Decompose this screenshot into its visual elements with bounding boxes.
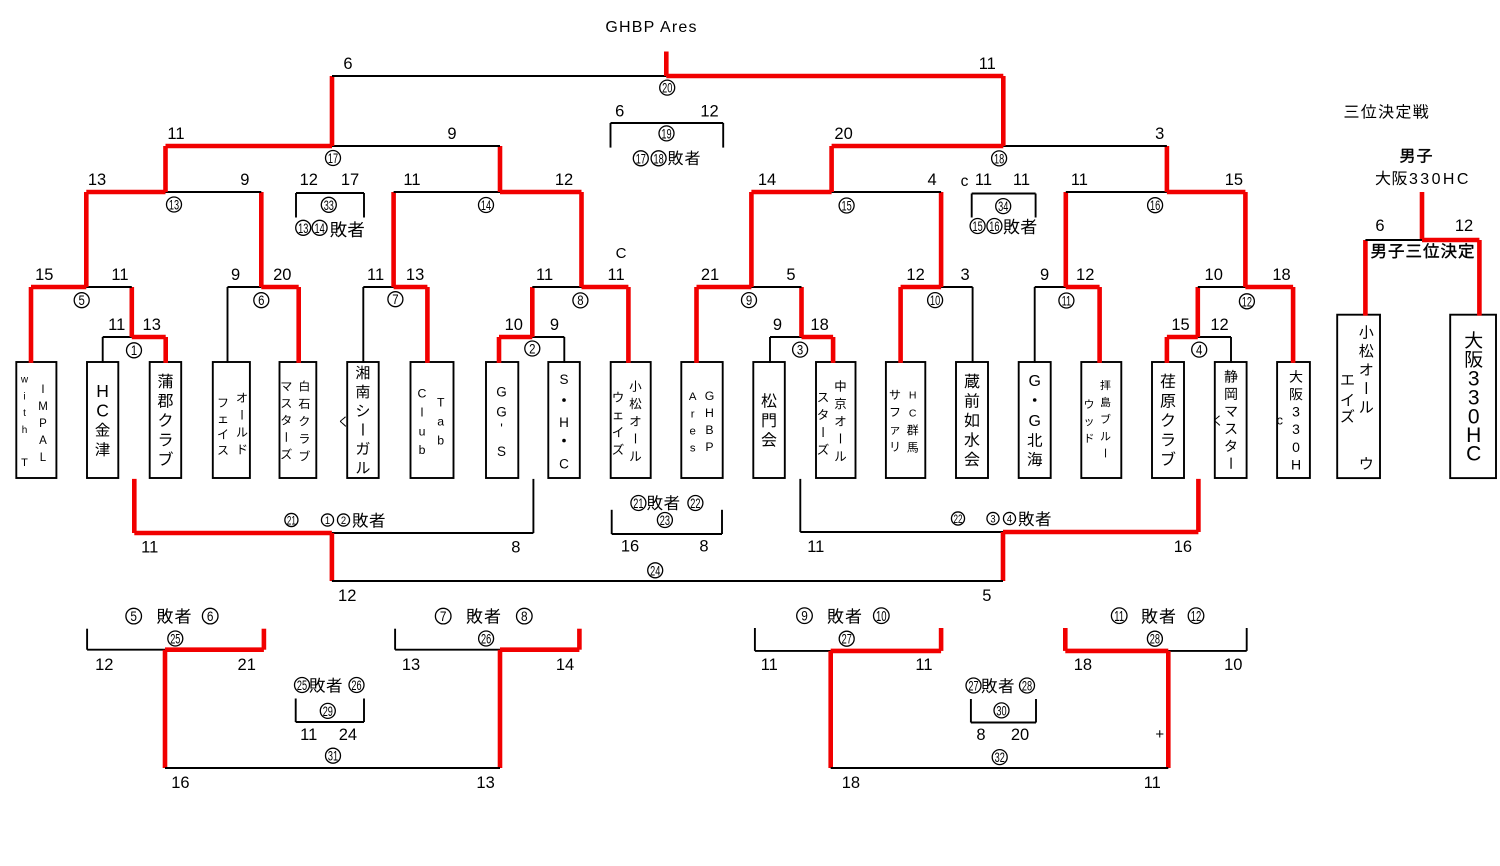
svg-text:9: 9	[231, 266, 240, 284]
svg-text:13: 13	[476, 774, 494, 792]
svg-text:H: H	[96, 381, 109, 401]
match 20 scores	[343, 55, 995, 73]
svg-text:T: T	[21, 457, 28, 469]
match 32 bracket	[831, 767, 1169, 769]
svg-text:6: 6	[1375, 217, 1384, 235]
svg-text:11: 11	[1062, 294, 1072, 309]
svg-text:11: 11	[167, 125, 184, 143]
svg-text:16: 16	[171, 774, 189, 792]
svg-text:22: 22	[690, 496, 700, 511]
match 33 number	[321, 197, 336, 212]
team box 小松オールウェイズ	[611, 362, 651, 478]
svg-text:r: r	[691, 408, 695, 420]
team box 松門会	[753, 362, 785, 478]
svg-text:16: 16	[1174, 538, 1192, 556]
svg-text:11: 11	[975, 171, 992, 189]
svg-text:17: 17	[328, 151, 338, 166]
svg-text:33: 33	[324, 198, 335, 213]
match 13 number	[167, 197, 182, 212]
svg-text:9: 9	[550, 316, 559, 334]
svg-text:16: 16	[1150, 198, 1161, 213]
label 15 16 敗者	[970, 219, 1036, 235]
svg-text:12: 12	[700, 103, 718, 121]
svg-text:9: 9	[801, 608, 808, 624]
wire match22-match24	[1001, 532, 1006, 581]
match 8 number	[573, 293, 588, 308]
annotation く near 静岡	[1214, 415, 1220, 425]
wire match18-match20	[1001, 76, 1006, 146]
svg-text:10: 10	[876, 608, 887, 625]
match 17 bracket	[166, 144, 501, 149]
svg-text:14: 14	[481, 198, 492, 213]
label 11 敗者 12	[1111, 608, 1203, 625]
match 29 bracket	[296, 699, 364, 723]
label 男子三位決定	[1371, 244, 1385, 258]
svg-text:L: L	[40, 452, 47, 464]
team box HC群馬サファリ	[886, 362, 925, 478]
svg-text:13: 13	[143, 316, 161, 334]
svg-text:5: 5	[786, 266, 795, 284]
svg-text:11: 11	[915, 656, 932, 674]
svg-text:3: 3	[961, 266, 970, 284]
match 2 scores	[505, 316, 559, 334]
svg-text:i: i	[23, 391, 25, 402]
match 16 scores	[1071, 171, 1243, 189]
team box IMPAL with T	[16, 362, 56, 478]
match 1 scores	[108, 316, 161, 334]
wire match2-match8	[530, 287, 535, 337]
svg-text:26: 26	[481, 632, 492, 647]
svg-text:11: 11	[111, 266, 128, 284]
svg-text:17: 17	[636, 151, 646, 166]
svg-text:s: s	[690, 443, 696, 455]
svg-text:13: 13	[88, 171, 106, 189]
wire feeder 白石	[296, 287, 301, 363]
svg-text:11: 11	[403, 171, 420, 189]
match 7 number	[388, 292, 403, 307]
svg-text:l: l	[421, 406, 424, 420]
svg-text:C: C	[1466, 443, 1481, 466]
svg-text:6: 6	[343, 55, 352, 73]
svg-text:A: A	[39, 435, 47, 447]
wire match11-match16	[1064, 192, 1069, 287]
svg-text:28: 28	[1150, 632, 1161, 647]
team box 大阪330HC(3位)	[1450, 315, 1496, 478]
match 3 bracket	[770, 336, 833, 338]
svg-text:9: 9	[240, 171, 249, 189]
match 18 scores	[834, 125, 1164, 143]
match 1 bracket	[103, 336, 166, 338]
label 25敗者26	[295, 678, 365, 694]
svg-text:330HC: 330HC	[1409, 171, 1471, 188]
wire match12-match16	[1243, 192, 1248, 287]
svg-text:0: 0	[1292, 439, 1300, 455]
svg-text:12: 12	[1242, 294, 1252, 309]
wire match3-match9	[799, 287, 804, 337]
svg-text:3: 3	[797, 343, 803, 358]
svg-text:12: 12	[906, 266, 924, 284]
svg-text:21: 21	[238, 656, 256, 674]
team box GHBP Ares	[681, 362, 722, 478]
team box オールドフェイス	[213, 362, 250, 478]
svg-text:24: 24	[650, 563, 661, 578]
svg-text:11: 11	[608, 266, 625, 284]
wire feeder 小松(3位)	[1363, 240, 1368, 316]
svg-text:C: C	[96, 401, 109, 421]
match 13 scores	[88, 171, 250, 189]
match 16 bracket	[1066, 191, 1246, 193]
match 20 bracket (final)	[332, 75, 1003, 77]
match 28 scores	[1074, 656, 1243, 674]
svg-text:4: 4	[1196, 343, 1202, 358]
svg-text:11: 11	[367, 266, 384, 284]
match 8 scores	[536, 266, 625, 284]
match 3rd place bracket	[1365, 239, 1479, 241]
svg-text:c: c	[1277, 413, 1284, 428]
wire match13-match17	[163, 146, 168, 192]
svg-text:9: 9	[447, 125, 456, 143]
svg-text:5: 5	[982, 587, 991, 605]
wire feeder 松門会	[769, 337, 771, 363]
svg-text:18: 18	[994, 152, 1005, 167]
wire feeder 湘南	[362, 287, 364, 363]
match 5 number	[74, 293, 89, 308]
label 13 14 敗者	[296, 220, 364, 237]
match 23 scores	[621, 538, 709, 556]
match 25 scores	[95, 656, 256, 674]
wire match7-match14	[391, 192, 396, 287]
svg-text:18: 18	[810, 316, 828, 334]
match 25 number	[168, 631, 183, 646]
svg-text:5: 5	[130, 608, 137, 624]
wire match26-match31	[498, 650, 503, 768]
svg-text:11: 11	[536, 266, 553, 284]
svg-text:H: H	[909, 390, 917, 402]
svg-text:G: G	[705, 389, 715, 403]
svg-text:+: +	[1155, 726, 1164, 743]
match 2 number	[525, 341, 540, 356]
svg-text:b: b	[419, 443, 426, 457]
match 10 scores	[906, 266, 969, 284]
svg-text:17: 17	[341, 171, 359, 189]
svg-text:GHBP Ares: GHBP Ares	[605, 19, 697, 36]
match 29 scores	[300, 726, 357, 744]
svg-text:T: T	[437, 395, 445, 409]
svg-text:12: 12	[1076, 266, 1094, 284]
svg-text:34: 34	[998, 199, 1009, 214]
svg-text:5: 5	[79, 293, 85, 308]
svg-text:A: A	[689, 391, 697, 403]
svg-text:14: 14	[556, 656, 574, 674]
svg-text:P: P	[39, 418, 47, 430]
svg-text:20: 20	[273, 266, 291, 284]
team box 荏原クラブ	[1152, 362, 1184, 478]
match 26 number	[479, 631, 494, 646]
svg-text:12: 12	[555, 171, 573, 189]
svg-text:20: 20	[834, 125, 852, 143]
svg-text:19: 19	[661, 127, 671, 142]
team box 蒲郡クラブ	[150, 362, 182, 478]
match 34 number	[996, 199, 1011, 214]
match 22 bracket	[800, 479, 1198, 532]
team box 中京オールスターズ	[816, 362, 856, 478]
match 24 number	[648, 563, 663, 578]
svg-text:a: a	[437, 414, 444, 428]
team box 白石クラブマスターズ	[280, 362, 317, 478]
match 23 number	[657, 513, 672, 528]
svg-text:23: 23	[660, 513, 671, 528]
match 26 scores	[402, 656, 574, 674]
svg-text:21: 21	[287, 515, 296, 528]
match 19 bracket	[611, 123, 724, 148]
svg-text:10: 10	[930, 293, 941, 308]
team box 静岡マスター	[1215, 362, 1247, 478]
wire match9-match15	[749, 192, 754, 287]
match 8 bracket	[532, 286, 628, 288]
team box 湘南シーガル	[347, 362, 379, 478]
svg-text:3: 3	[1292, 404, 1300, 420]
match 31 bracket	[165, 767, 500, 769]
match 19 scores	[615, 103, 719, 121]
match 10 bracket	[901, 285, 973, 290]
wire feeder GG北海	[1034, 287, 1036, 363]
svg-text:2: 2	[529, 341, 535, 356]
team box 小松オールウェイズ(3位)	[1337, 315, 1380, 478]
wire feeder 拝島	[1097, 287, 1102, 363]
match 18 number	[992, 151, 1007, 166]
match 27 bracket	[755, 628, 941, 651]
svg-text:u: u	[419, 424, 426, 438]
match 9 scores	[701, 266, 796, 284]
match 20 number	[660, 80, 675, 95]
svg-text:H: H	[559, 415, 569, 430]
match 31 scores	[171, 774, 495, 792]
wire match21-match24	[330, 533, 335, 581]
svg-text:9: 9	[1040, 266, 1049, 284]
svg-text:e: e	[690, 426, 696, 438]
match 32 scores	[842, 774, 1161, 792]
match 28 bracket	[1065, 628, 1246, 651]
match 15 number	[839, 198, 854, 213]
svg-text:8: 8	[521, 608, 528, 624]
match 17 scores	[167, 125, 456, 143]
wire feeder GGS	[497, 337, 502, 363]
label 9 敗者 10	[797, 608, 889, 625]
svg-text:7: 7	[440, 608, 447, 624]
match 16 number	[1148, 198, 1163, 213]
match 4 bracket	[1167, 335, 1231, 340]
svg-text:3: 3	[1155, 125, 1164, 143]
svg-text:G: G	[496, 405, 507, 420]
team box S・H・C	[548, 362, 580, 478]
wire champion	[664, 52, 669, 77]
svg-text:2: 2	[341, 515, 346, 527]
wire feeder 蒲郡	[163, 337, 168, 363]
svg-text:12: 12	[1455, 217, 1473, 235]
svg-text:11: 11	[141, 539, 158, 557]
match 27 scores	[761, 656, 933, 674]
svg-text:8: 8	[577, 293, 583, 308]
svg-text:12: 12	[300, 171, 318, 189]
match 22 scores	[807, 538, 1192, 556]
svg-text:7: 7	[392, 292, 398, 307]
svg-text:20: 20	[1011, 726, 1029, 744]
svg-text:11: 11	[300, 726, 317, 744]
match 10 number	[928, 293, 943, 308]
svg-text:12: 12	[338, 587, 356, 605]
svg-text:4: 4	[928, 171, 937, 189]
wire feeder オールド	[227, 287, 229, 363]
svg-text:27: 27	[968, 679, 978, 694]
match 6 bracket	[228, 286, 299, 288]
svg-text:18: 18	[1074, 656, 1092, 674]
svg-text:18: 18	[653, 151, 664, 166]
match 3rd place scores	[1375, 217, 1473, 235]
match 6 scores	[231, 266, 291, 284]
svg-text:G: G	[496, 384, 507, 399]
match 28 number	[1147, 631, 1162, 646]
svg-text:15: 15	[972, 219, 983, 234]
svg-text:H: H	[705, 406, 714, 420]
wire 3rd place winner drop	[1420, 192, 1425, 240]
svg-text:B: B	[705, 423, 713, 437]
match 34 scores	[961, 171, 1030, 190]
match 5 bracket	[31, 285, 132, 290]
svg-text:': '	[500, 421, 503, 436]
svg-text:c: c	[961, 173, 969, 190]
match 11 bracket	[1035, 286, 1100, 288]
svg-text:G: G	[1028, 373, 1040, 390]
wire match25-match31	[163, 650, 168, 768]
wire feeder 荏原	[1165, 337, 1170, 363]
match 24 scores	[338, 587, 991, 605]
svg-text:12: 12	[1191, 608, 1202, 625]
svg-text:11: 11	[108, 316, 125, 334]
team box Tab Club	[411, 362, 454, 478]
svg-text:30: 30	[996, 704, 1007, 719]
match 24 bracket	[332, 580, 1003, 582]
svg-text:26: 26	[351, 678, 362, 693]
svg-text:C: C	[559, 456, 569, 471]
svg-text:6: 6	[258, 293, 264, 308]
match 19 number	[659, 126, 674, 141]
match 27 number	[839, 631, 854, 646]
svg-text:27: 27	[842, 632, 852, 647]
wire feeder 大阪330H	[1291, 287, 1296, 363]
svg-text:11: 11	[1071, 171, 1088, 189]
match 22 label	[951, 511, 1050, 526]
match 1 number	[127, 343, 142, 358]
match 30 number	[994, 703, 1009, 718]
wire feeder 中京	[831, 337, 836, 363]
match 18 bracket	[832, 144, 1167, 149]
wire feeder 静岡	[1230, 337, 1232, 363]
svg-text:G: G	[1028, 413, 1040, 430]
wire feeder IMPAL	[29, 287, 34, 363]
wire match17-match20	[330, 76, 335, 146]
svg-text:16: 16	[989, 219, 1000, 234]
svg-text:11: 11	[1114, 608, 1124, 625]
wire match10-match15	[939, 192, 944, 287]
match 23 bracket	[612, 510, 722, 534]
wire match4-match12	[1196, 287, 1201, 337]
match 23 label	[631, 495, 703, 511]
svg-text:31: 31	[328, 749, 338, 764]
match 11 scores	[1040, 266, 1094, 284]
svg-text:I: I	[41, 384, 44, 396]
svg-text:10: 10	[1224, 656, 1242, 674]
team box 蔵前如水会	[956, 362, 988, 478]
svg-text:25: 25	[170, 632, 181, 647]
svg-text:11: 11	[761, 656, 778, 674]
match 30 bracket	[971, 699, 1036, 723]
match 31 number	[326, 748, 341, 763]
svg-text:9: 9	[773, 316, 782, 334]
svg-text:32: 32	[995, 750, 1005, 765]
match 12 scores	[1205, 266, 1291, 284]
svg-text:3: 3	[990, 514, 995, 526]
match 14 bracket	[394, 191, 582, 193]
match 15 scores	[758, 171, 937, 189]
match 7 bracket	[363, 286, 427, 288]
match 4 scores	[1171, 316, 1228, 334]
match 21 label	[285, 513, 385, 528]
label 5 敗者 6	[126, 608, 218, 624]
svg-text:H: H	[1291, 456, 1301, 472]
svg-text:9: 9	[746, 293, 752, 308]
label 7 敗者 8	[435, 608, 532, 624]
match 30 scores	[976, 726, 1029, 744]
wire feeder 大阪330HC(3位)	[1477, 240, 1482, 316]
svg-text:11: 11	[807, 538, 824, 556]
match 13 bracket	[86, 190, 261, 195]
svg-text:3: 3	[1292, 421, 1300, 437]
team box HC金津	[87, 362, 118, 478]
svg-text:8: 8	[976, 726, 985, 744]
match 2 bracket	[499, 335, 564, 340]
svg-text:6: 6	[615, 103, 624, 121]
match 14 scores	[403, 171, 573, 189]
wire feeder SHC	[563, 337, 565, 363]
match 3 number	[793, 342, 808, 357]
match 34 bracket	[972, 194, 1036, 218]
match 26 bracket	[395, 629, 579, 650]
svg-text:13: 13	[402, 656, 420, 674]
match 5 scores	[35, 266, 128, 284]
svg-text:10: 10	[505, 316, 523, 334]
label 大阪330HC(3位勝者)	[1376, 171, 1471, 188]
match 21 scores	[141, 539, 520, 557]
wire feeder Tab	[425, 287, 430, 363]
wire match1-match5	[130, 287, 135, 337]
match 9 number	[742, 293, 757, 308]
wire match5-match13	[84, 192, 89, 287]
svg-text:15: 15	[35, 266, 53, 284]
svg-text:21: 21	[633, 496, 643, 511]
svg-text:14: 14	[314, 221, 325, 236]
svg-text:25: 25	[297, 678, 308, 693]
svg-text:8: 8	[511, 539, 520, 557]
label 男子	[1400, 149, 1432, 163]
svg-text:C: C	[909, 407, 917, 419]
svg-text:8: 8	[699, 538, 708, 556]
svg-text:1: 1	[325, 515, 330, 527]
team box 大阪330H	[1277, 362, 1310, 478]
svg-text:4: 4	[1007, 514, 1012, 526]
svg-text:15: 15	[1171, 316, 1189, 334]
svg-text:P: P	[705, 440, 713, 454]
svg-text:11: 11	[979, 55, 996, 73]
